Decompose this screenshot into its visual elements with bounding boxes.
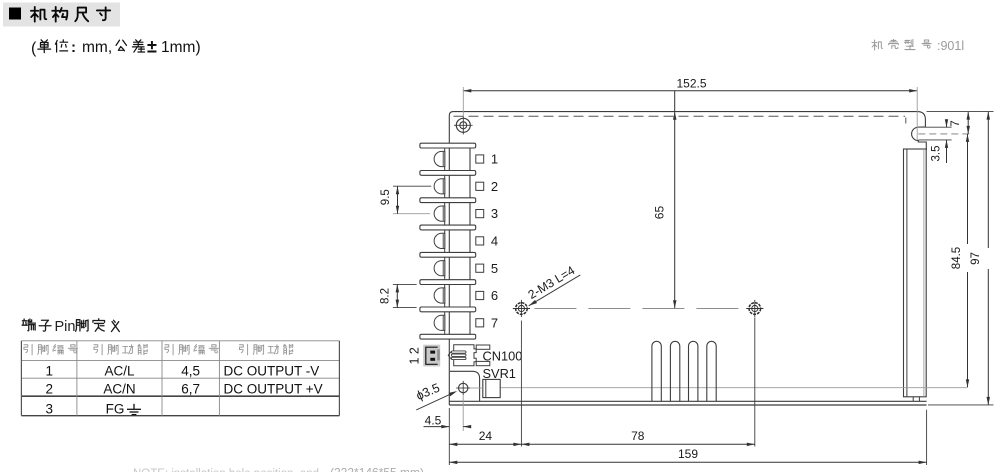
svg-text:3.5: 3.5 bbox=[931, 146, 943, 162]
svg-text:(222*146*55 mm): (222*146*55 mm) bbox=[330, 466, 424, 472]
svg-text:1: 1 bbox=[45, 363, 53, 378]
terminal pin square 5 bbox=[476, 264, 484, 272]
terminal screw 3 bbox=[434, 206, 445, 221]
svg-text:4,5: 4,5 bbox=[181, 363, 200, 378]
dimension 3.5 right bbox=[918, 126, 951, 128]
vent slot 4 bbox=[707, 341, 716, 401]
svg-text:97: 97 bbox=[970, 252, 982, 265]
dimension 159 bottom bbox=[449, 461, 926, 463]
case model label 机壳型号:901I bbox=[872, 40, 883, 50]
vent slot 3 bbox=[689, 341, 698, 401]
CN100 fingers bbox=[476, 345, 490, 349]
earth ground symbol bbox=[127, 404, 141, 415]
svg-text:mm,: mm, bbox=[82, 39, 112, 56]
terminal pin square 4 bbox=[476, 237, 484, 245]
svg-text:3: 3 bbox=[45, 402, 53, 417]
svg-text:6: 6 bbox=[491, 288, 498, 303]
svg-text:SVR1: SVR1 bbox=[483, 366, 516, 381]
svg-text:8.2: 8.2 bbox=[380, 288, 392, 304]
chassis mounting centerline (dashed) bbox=[534, 308, 746, 310]
terminal separator bar 6 bbox=[420, 280, 476, 285]
mounting hole at x=521 bbox=[513, 300, 530, 317]
terminal pin square 3 bbox=[476, 210, 484, 218]
svg-text:24: 24 bbox=[479, 429, 493, 443]
terminal screw 7 bbox=[434, 315, 445, 330]
svg-text:1mm): 1mm) bbox=[161, 39, 201, 56]
terminal pin square 2 bbox=[476, 182, 484, 190]
svg-text:(: ( bbox=[31, 40, 37, 57]
dimension 84.5 right bbox=[967, 134, 969, 244]
svg-text:6,7: 6,7 bbox=[181, 381, 200, 396]
terminal pin square 7 bbox=[476, 319, 484, 327]
terminal separator bar 3 bbox=[420, 198, 476, 203]
dimension 8.2 left bbox=[393, 283, 417, 285]
extension lines bottom bbox=[448, 408, 450, 465]
dimension 4.5 bottom bbox=[462, 396, 464, 432]
svg-text:NOTE: installation hole positi: NOTE: installation hole position, and bbox=[133, 468, 319, 472]
svg-text:7: 7 bbox=[950, 120, 962, 126]
right side flange bar bbox=[904, 149, 927, 397]
svg-text:78: 78 bbox=[631, 429, 645, 443]
chassis right bend dashed line bbox=[905, 118, 907, 127]
terminal pin square 6 bbox=[476, 291, 484, 299]
top-left corner screw boss bbox=[454, 116, 473, 134]
svg-text:1 2: 1 2 bbox=[408, 347, 422, 364]
svg-text:CN100: CN100 bbox=[483, 349, 523, 364]
svg-text:AC/L: AC/L bbox=[104, 363, 135, 378]
terminal screw 4 bbox=[434, 233, 445, 248]
dimension 7 right bbox=[927, 111, 994, 113]
dimension 152.5 top bbox=[463, 90, 917, 92]
terminal separator bar 7 bbox=[420, 307, 476, 312]
terminal separator bar 8 bbox=[420, 334, 476, 339]
svg-text:2: 2 bbox=[491, 179, 498, 194]
table heading 端子Pin脚定义 bbox=[22, 319, 35, 331]
svg-text:65: 65 bbox=[653, 206, 667, 220]
front panel rounded corner bbox=[450, 371, 480, 401]
mounting hole at x=755 bbox=[746, 300, 763, 317]
CN100 contact bars bbox=[451, 351, 466, 353]
svg-text:9.5: 9.5 bbox=[380, 189, 392, 205]
terminal screw 1 bbox=[434, 151, 445, 166]
svg-text:FG: FG bbox=[106, 402, 125, 417]
chassis top bend dashed line bbox=[454, 115, 906, 117]
connector CN100 housing bbox=[454, 345, 477, 366]
svg-text::: : bbox=[71, 39, 76, 56]
terminal block body vertical lines bbox=[444, 146, 446, 337]
terminal separator bar 5 bbox=[420, 252, 476, 257]
vent slot 1 bbox=[652, 341, 661, 401]
dimension 9.5 left bbox=[393, 185, 431, 187]
right flange bottom tab bbox=[913, 397, 919, 401]
svg-text:Pin: Pin bbox=[55, 319, 76, 335]
leader line for hole diameter bbox=[416, 393, 452, 410]
svg-text:AC/N: AC/N bbox=[103, 381, 135, 396]
dimension 65 vertical bbox=[674, 91, 676, 308]
2-pin connector body bbox=[423, 345, 440, 367]
svg-text:2: 2 bbox=[45, 381, 53, 396]
svg-text:4: 4 bbox=[491, 234, 498, 249]
terminal separator bar 4 bbox=[420, 225, 476, 230]
terminal screw 2 bbox=[434, 179, 445, 194]
svg-text:3: 3 bbox=[491, 206, 498, 221]
inner horizontal line (side lip) bbox=[501, 387, 967, 389]
title background bar bbox=[3, 3, 120, 27]
dimension 24 bottom bbox=[449, 443, 521, 445]
terminal separator bar 2 bbox=[420, 171, 476, 176]
leader 2-M3 L=4 bbox=[529, 275, 581, 306]
chassis outline top edge and left edge bbox=[449, 112, 925, 405]
svg-text:4.5: 4.5 bbox=[425, 413, 442, 427]
front mounting hole bbox=[456, 381, 470, 395]
title bullet square bbox=[9, 8, 21, 20]
dimension 97 right bbox=[928, 404, 994, 406]
dimension 78 bottom bbox=[521, 443, 754, 445]
chassis right notch (slot) bbox=[912, 127, 927, 150]
svg-text:DC OUTPUT +V: DC OUTPUT +V bbox=[224, 381, 323, 396]
terminal screw 6 bbox=[434, 288, 445, 303]
svg-text:7: 7 bbox=[491, 315, 498, 330]
svg-text:DC OUTPUT -V: DC OUTPUT -V bbox=[224, 363, 320, 378]
terminal screw 5 bbox=[434, 261, 445, 276]
terminal separator bar 1 bbox=[420, 143, 476, 148]
terminal pin square 1 bbox=[476, 155, 484, 163]
vent slot 2 bbox=[670, 341, 679, 401]
svg-text:152.5: 152.5 bbox=[676, 77, 706, 91]
table header row bbox=[24, 344, 32, 355]
svg-text::901l: :901l bbox=[937, 39, 964, 53]
base plate bottom edges bbox=[449, 400, 926, 402]
potentiometer SVR1 box bbox=[483, 379, 500, 397]
svg-text:±: ± bbox=[147, 37, 157, 57]
table grid bbox=[21, 341, 339, 378]
svg-text:159: 159 bbox=[678, 447, 698, 461]
svg-text:5: 5 bbox=[491, 261, 498, 276]
svg-text:1: 1 bbox=[491, 152, 498, 167]
svg-text:84.5: 84.5 bbox=[951, 247, 963, 269]
title text 机构尺寸 bbox=[31, 7, 46, 22]
